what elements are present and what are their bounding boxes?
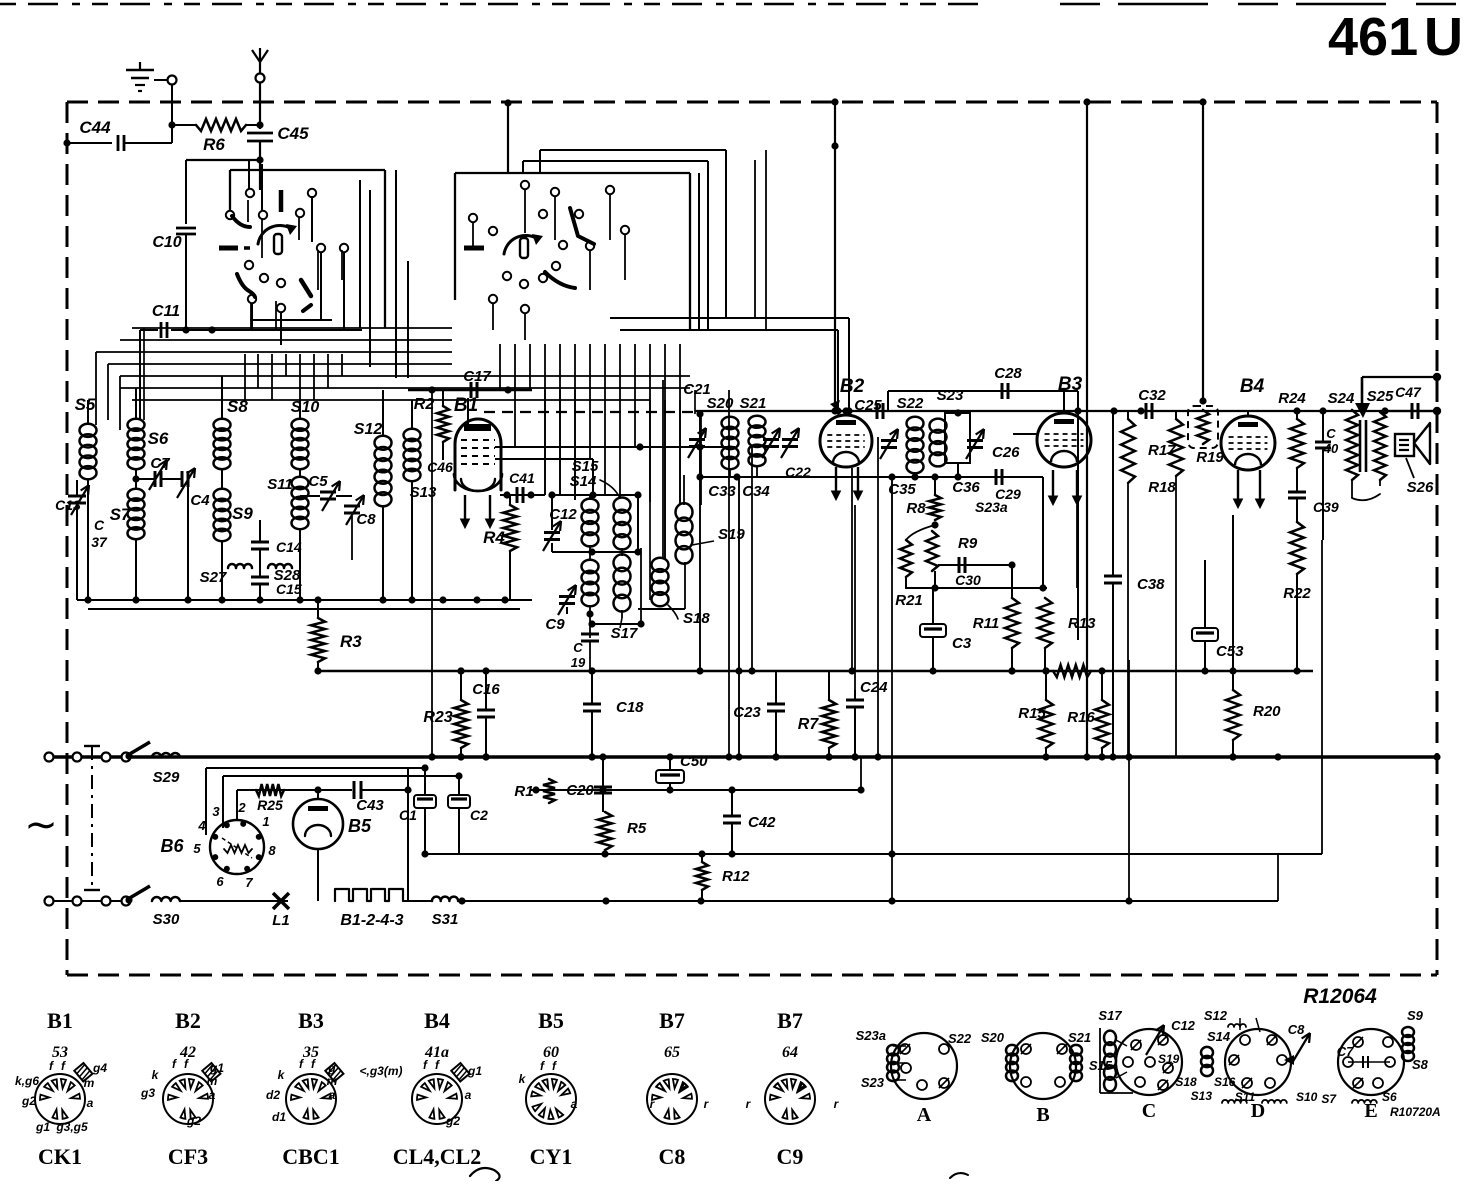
svg-text:C11: C11 <box>152 303 180 320</box>
svg-text:C39: C39 <box>1313 499 1339 515</box>
svg-text:S5: S5 <box>75 395 96 414</box>
svg-text:S16: S16 <box>1214 1075 1236 1089</box>
svg-text:C22: C22 <box>785 464 811 480</box>
svg-text:C8: C8 <box>356 511 376 528</box>
svg-text:S19: S19 <box>718 526 745 543</box>
svg-text:U: U <box>1424 7 1463 67</box>
svg-text:6: 6 <box>216 874 224 889</box>
svg-text:C28: C28 <box>994 365 1022 382</box>
svg-text:C45: C45 <box>277 124 309 143</box>
svg-text:a: a <box>465 1088 472 1102</box>
svg-text:a: a <box>329 1088 336 1102</box>
svg-text:R23: R23 <box>423 709 452 726</box>
svg-text:C26: C26 <box>992 444 1020 461</box>
svg-text:C14: C14 <box>276 539 302 555</box>
svg-text:g3,g5: g3,g5 <box>55 1120 88 1134</box>
svg-text:C16: C16 <box>472 681 500 698</box>
svg-text:60: 60 <box>543 1044 559 1061</box>
svg-text:S8: S8 <box>227 397 248 416</box>
svg-text:S14: S14 <box>570 473 597 490</box>
svg-text:CY1: CY1 <box>530 1144 573 1169</box>
svg-text:R11: R11 <box>973 615 999 632</box>
svg-text:R16: R16 <box>1067 709 1095 726</box>
svg-text:S8: S8 <box>1412 1057 1429 1072</box>
svg-text:C23: C23 <box>733 704 761 721</box>
svg-text:C8: C8 <box>1288 1022 1305 1037</box>
svg-text:C7: C7 <box>1337 1044 1354 1059</box>
svg-text:g1: g1 <box>467 1064 482 1078</box>
svg-text:S10: S10 <box>1296 1090 1318 1104</box>
svg-text:R4: R4 <box>483 528 505 547</box>
svg-text:<,g3(m): <,g3(m) <box>359 1064 402 1078</box>
svg-text:S18: S18 <box>1175 1075 1197 1089</box>
svg-text:S14: S14 <box>1207 1029 1231 1044</box>
svg-text:3: 3 <box>212 804 220 819</box>
svg-text:B3: B3 <box>298 1008 324 1033</box>
svg-text:R3: R3 <box>340 632 362 651</box>
svg-text:8: 8 <box>268 843 276 858</box>
svg-text:C20: C20 <box>566 782 594 799</box>
svg-text:C38: C38 <box>1137 576 1165 593</box>
svg-text:m: m <box>327 1074 338 1088</box>
svg-text:g4: g4 <box>92 1061 107 1075</box>
svg-text:S24: S24 <box>1328 390 1355 407</box>
svg-text:S10: S10 <box>291 399 320 416</box>
svg-text:5: 5 <box>193 841 201 856</box>
svg-text:g2: g2 <box>445 1114 460 1128</box>
svg-text:B7: B7 <box>659 1008 685 1033</box>
svg-text:64: 64 <box>782 1044 798 1061</box>
svg-text:B1: B1 <box>454 395 478 416</box>
svg-text:S21: S21 <box>1068 1030 1091 1045</box>
svg-text:C33: C33 <box>708 483 736 500</box>
svg-text:C36: C36 <box>952 479 980 496</box>
svg-text:C32: C32 <box>1138 387 1166 404</box>
svg-text:B1: B1 <box>47 1008 73 1033</box>
svg-text:B1-2-4-3: B1-2-4-3 <box>340 912 403 929</box>
svg-text:R24: R24 <box>1278 390 1306 407</box>
svg-text:g1: g1 <box>209 1061 224 1075</box>
svg-text:S23: S23 <box>937 387 964 404</box>
svg-text:B4: B4 <box>424 1008 450 1033</box>
svg-text:R6: R6 <box>203 135 225 154</box>
svg-text:S12: S12 <box>354 421 383 438</box>
svg-text:S7: S7 <box>1321 1092 1337 1106</box>
svg-text:2: 2 <box>237 800 246 815</box>
svg-text:d2: d2 <box>266 1088 280 1102</box>
svg-text:1: 1 <box>262 814 269 829</box>
svg-text:S30: S30 <box>153 911 180 928</box>
svg-text:65: 65 <box>664 1044 680 1061</box>
svg-text:R8: R8 <box>906 500 926 517</box>
svg-text:B5: B5 <box>348 816 372 836</box>
svg-text:S29: S29 <box>153 769 180 786</box>
svg-text:B2: B2 <box>840 376 865 397</box>
svg-text:C44: C44 <box>79 118 111 137</box>
svg-text:461: 461 <box>1328 7 1418 67</box>
svg-text:B7: B7 <box>777 1008 803 1033</box>
svg-text:R15: R15 <box>1018 705 1046 722</box>
svg-text:C42: C42 <box>748 814 776 831</box>
svg-text:R19: R19 <box>1196 449 1224 466</box>
svg-text:R12: R12 <box>722 868 750 885</box>
svg-text:C1: C1 <box>399 807 417 823</box>
svg-text:C9: C9 <box>545 616 565 633</box>
svg-text:C12: C12 <box>549 506 577 523</box>
svg-text:S21: S21 <box>740 395 767 412</box>
svg-text:C: C <box>94 517 105 533</box>
svg-text:S18: S18 <box>683 610 710 627</box>
svg-text:g2: g2 <box>186 1114 201 1128</box>
svg-text:C: C <box>1326 426 1336 441</box>
svg-text:19: 19 <box>571 655 586 670</box>
svg-text:C29: C29 <box>995 486 1021 502</box>
svg-text:a: a <box>571 1097 578 1111</box>
svg-text:S11: S11 <box>1235 1090 1256 1104</box>
svg-text:C4: C4 <box>190 492 210 509</box>
svg-text:S7: S7 <box>110 505 132 524</box>
svg-text:C43: C43 <box>356 797 384 814</box>
svg-text:S6: S6 <box>1382 1090 1397 1104</box>
svg-text:S20: S20 <box>707 395 734 412</box>
svg-text:S6: S6 <box>148 429 169 448</box>
svg-text:C53: C53 <box>1216 643 1244 660</box>
svg-text:C50: C50 <box>680 753 708 770</box>
svg-text:C41: C41 <box>509 470 535 486</box>
svg-text:m: m <box>84 1076 95 1090</box>
svg-text:R22: R22 <box>1283 585 1311 602</box>
svg-text:C17: C17 <box>463 368 491 385</box>
svg-text:CL4,CL2: CL4,CL2 <box>393 1144 482 1169</box>
svg-text:S13: S13 <box>1191 1089 1213 1103</box>
svg-text:B6: B6 <box>160 836 184 856</box>
svg-text:A: A <box>917 1104 932 1126</box>
svg-text:d1: d1 <box>272 1110 286 1124</box>
svg-text:R20: R20 <box>1253 703 1281 720</box>
svg-text:C: C <box>1142 1100 1156 1122</box>
svg-text:R1: R1 <box>514 783 533 800</box>
svg-text:k,g6: k,g6 <box>15 1074 39 1088</box>
svg-text:g1: g1 <box>35 1120 50 1134</box>
svg-text:R7: R7 <box>798 716 820 733</box>
svg-text:S15: S15 <box>1089 1058 1113 1073</box>
svg-text:∼: ∼ <box>24 803 58 847</box>
svg-text:S17: S17 <box>1098 1008 1122 1023</box>
svg-text:C3: C3 <box>952 635 972 652</box>
svg-text:S20: S20 <box>981 1030 1005 1045</box>
svg-text:C7: C7 <box>150 455 170 472</box>
svg-text:53: 53 <box>52 1044 68 1061</box>
svg-text:B5: B5 <box>538 1008 564 1033</box>
svg-text:C34: C34 <box>742 483 770 500</box>
svg-text:S19: S19 <box>1158 1052 1180 1066</box>
svg-text:R10720A: R10720A <box>1390 1105 1441 1119</box>
svg-text:R25: R25 <box>257 797 283 813</box>
svg-text:a: a <box>87 1096 94 1110</box>
svg-text:C: C <box>573 640 583 655</box>
svg-text:S22: S22 <box>948 1031 972 1046</box>
svg-text:g3: g3 <box>140 1086 155 1100</box>
svg-text:C9: C9 <box>777 1144 804 1169</box>
svg-text:S9: S9 <box>1407 1008 1424 1023</box>
svg-text:S31: S31 <box>432 911 459 928</box>
svg-text:a: a <box>209 1088 216 1102</box>
svg-text:S22: S22 <box>897 395 924 412</box>
svg-text:C5: C5 <box>308 473 328 490</box>
svg-text:S25: S25 <box>1367 388 1394 405</box>
svg-text:CK1: CK1 <box>38 1144 82 1169</box>
svg-text:C47: C47 <box>1395 384 1422 400</box>
svg-text:S11: S11 <box>267 476 293 493</box>
svg-text:C10: C10 <box>152 234 181 251</box>
svg-text:B4: B4 <box>1240 376 1265 397</box>
svg-text:S23a: S23a <box>856 1028 886 1043</box>
svg-text:g2: g2 <box>21 1094 36 1108</box>
svg-text:C2: C2 <box>470 807 488 823</box>
svg-text:g: g <box>327 1061 336 1075</box>
svg-text:C18: C18 <box>616 699 644 716</box>
svg-text:S9: S9 <box>232 504 253 523</box>
svg-text:R21: R21 <box>895 592 923 609</box>
svg-text:S17: S17 <box>611 625 638 642</box>
svg-text:R13: R13 <box>1068 615 1096 632</box>
svg-text:C13: C13 <box>55 497 81 513</box>
svg-text:C30: C30 <box>955 572 981 588</box>
svg-text:R17: R17 <box>1148 442 1176 459</box>
svg-text:B2: B2 <box>175 1008 201 1033</box>
svg-text:B3: B3 <box>1058 374 1083 395</box>
svg-text:B: B <box>1036 1104 1049 1126</box>
svg-text:CBC1: CBC1 <box>282 1144 339 1169</box>
svg-text:7: 7 <box>245 875 253 890</box>
svg-text:L1: L1 <box>272 912 290 929</box>
svg-text:S12: S12 <box>1204 1008 1228 1023</box>
svg-text:R18: R18 <box>1148 479 1176 496</box>
svg-text:S23: S23 <box>861 1075 885 1090</box>
svg-text:C24: C24 <box>860 679 888 696</box>
svg-text:m: m <box>207 1074 218 1088</box>
svg-text:40: 40 <box>1323 441 1339 456</box>
svg-text:C12: C12 <box>1171 1018 1196 1033</box>
svg-text:R9: R9 <box>958 535 978 552</box>
svg-text:CF3: CF3 <box>168 1144 208 1169</box>
svg-text:37: 37 <box>91 534 108 550</box>
svg-text:R5: R5 <box>627 820 647 837</box>
svg-text:R12064: R12064 <box>1303 985 1377 1008</box>
svg-text:C15: C15 <box>276 581 302 597</box>
svg-text:C46: C46 <box>427 459 453 475</box>
svg-text:S27: S27 <box>200 569 227 586</box>
svg-text:S26: S26 <box>1407 479 1434 496</box>
svg-text:C8: C8 <box>659 1144 686 1169</box>
